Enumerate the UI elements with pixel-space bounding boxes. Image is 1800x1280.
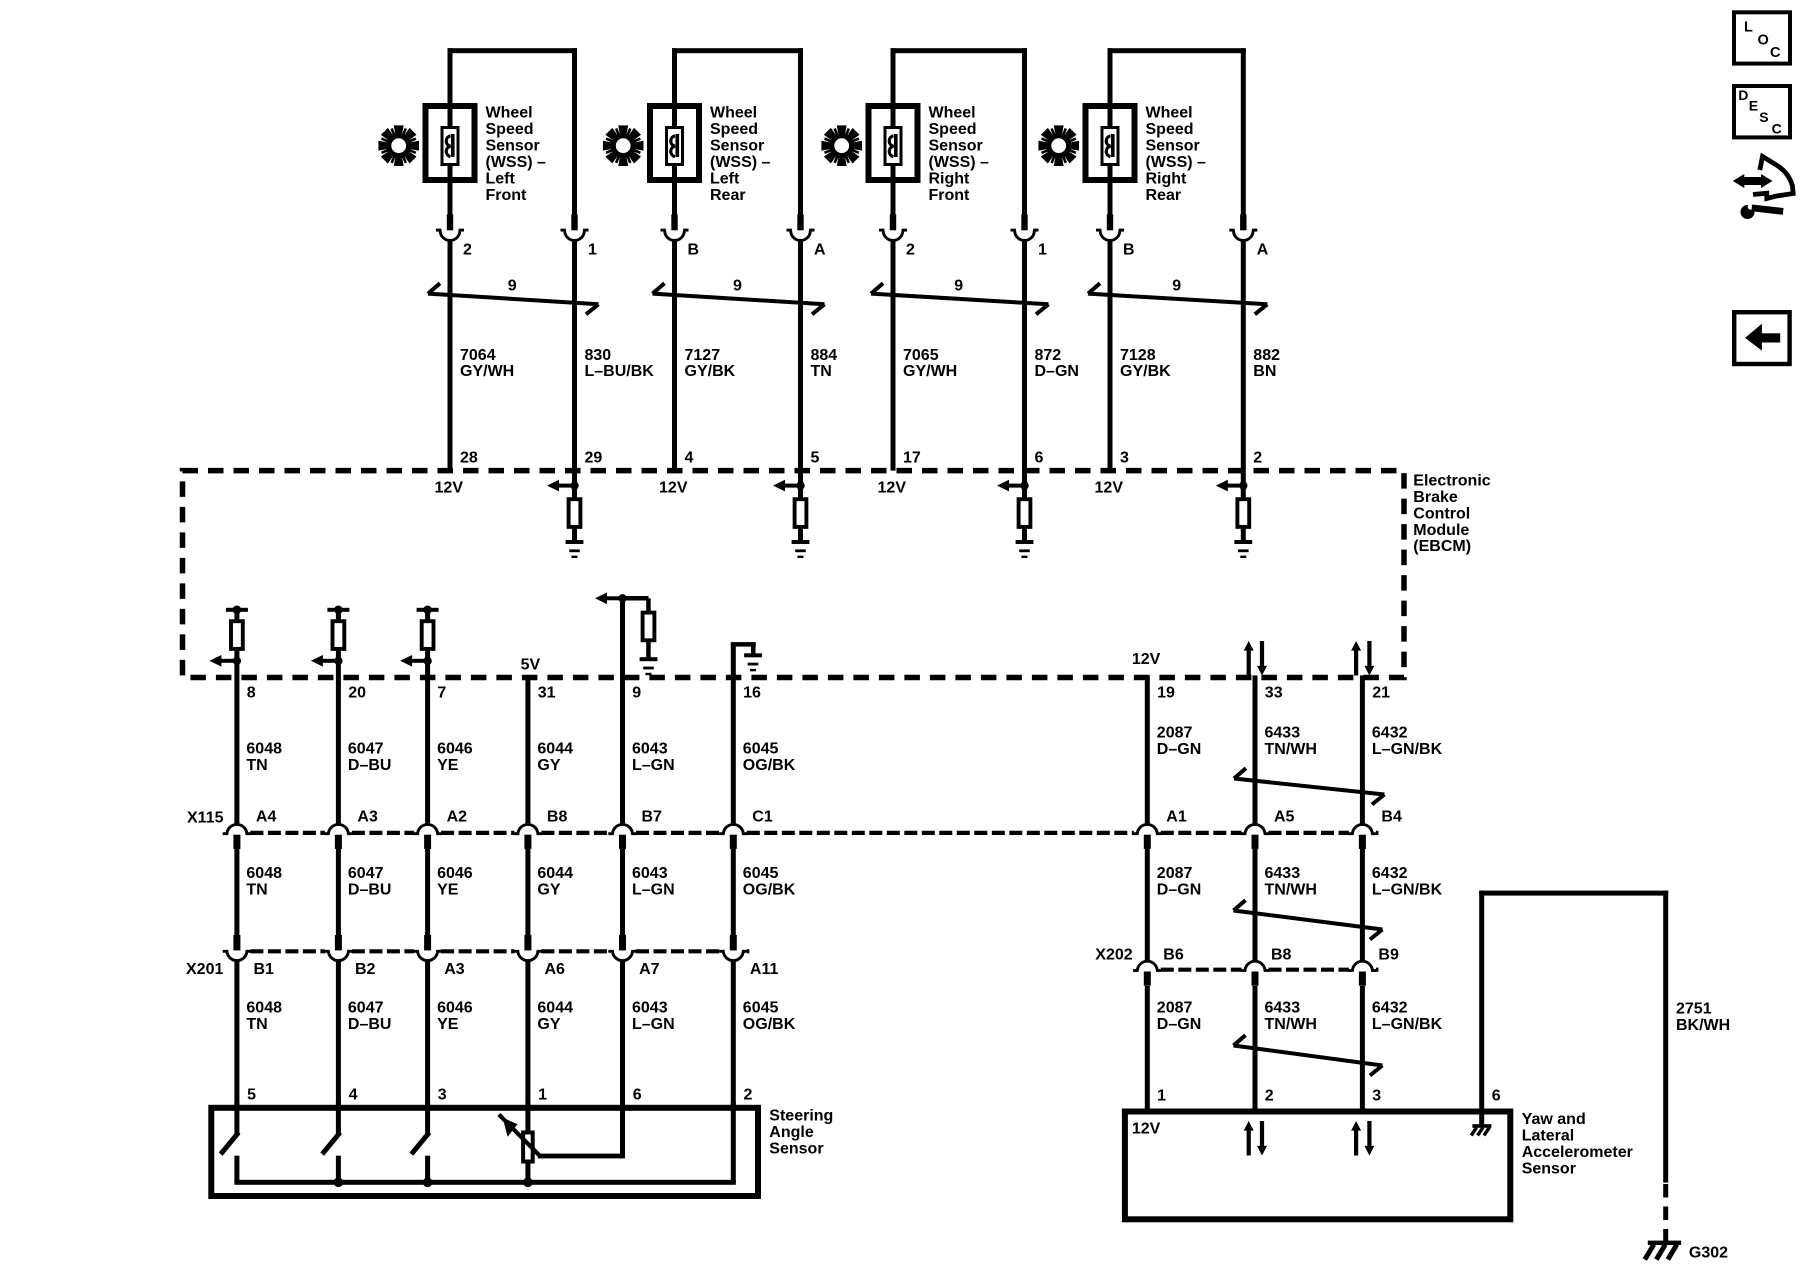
label 872 D–GN (1035, 347, 1079, 380)
svg-text:Sensor: Sensor (929, 138, 983, 155)
connector pin 2 (436, 215, 464, 241)
wire 2751 dashed to G302 (1663, 1184, 1668, 1242)
label 6044 GY (row 1) col 4 (537, 741, 573, 775)
svg-text:12V: 12V (878, 480, 907, 497)
sensor name text 4 (1146, 105, 1207, 204)
wire left 3 (891, 48, 896, 215)
twisted pair 6433/6432 (row 1) (1234, 768, 1384, 804)
chassis ground inside yaw sensor (1471, 1109, 1491, 1136)
twisted pair 6433/6432 (row 3) (1234, 1035, 1383, 1075)
svg-text:7: 7 (437, 685, 446, 702)
svg-text:OG/BK: OG/BK (743, 882, 796, 899)
Yaw and Lateral Accelerometer Sensor box (1125, 1112, 1510, 1220)
wire 884 (798, 240, 803, 470)
svg-text:(WSS) –: (WSS) – (486, 154, 547, 171)
connector X201 dashed line (250, 949, 749, 953)
svg-text:16: 16 (743, 685, 761, 702)
wire left 4 (1108, 48, 1113, 215)
wire 7127 (672, 240, 677, 470)
svg-text:GY/WH: GY/WH (903, 363, 957, 380)
wire col 8 X202 to yaw sensor (1253, 986, 1258, 1109)
wire 882 (1241, 240, 1246, 470)
switch contact col 3 (411, 1102, 430, 1182)
svg-text:33: 33 (1265, 685, 1283, 702)
svg-text:Lateral: Lateral (1522, 1128, 1574, 1145)
svg-text:7127: 7127 (685, 347, 721, 364)
EBCM pin 5 (811, 450, 820, 467)
12V net label pin 4 (659, 480, 688, 497)
svg-text:A5: A5 (1274, 809, 1295, 826)
svg-text:Sensor: Sensor (486, 138, 540, 155)
wire right 3 (1022, 48, 1027, 215)
svg-text:21: 21 (1372, 685, 1390, 702)
label 7127 GY/BK (685, 347, 736, 380)
svg-text:6044: 6044 (537, 999, 573, 1016)
svg-text:Steering: Steering (769, 1108, 833, 1125)
svg-text:6046: 6046 (437, 865, 473, 882)
svg-text:D–GN: D–GN (1035, 363, 1079, 380)
svg-text:6044: 6044 (537, 865, 573, 882)
svg-text:Front: Front (929, 187, 971, 204)
label 2087 D–GN (row 1) col 7 (1157, 725, 1201, 759)
wheel speed sensor (WSS) Left Front (378, 48, 654, 470)
svg-text:6045: 6045 (743, 865, 779, 882)
svg-text:Speed: Speed (929, 121, 977, 138)
navigation icon (1733, 157, 1793, 220)
svg-text:1: 1 (538, 1087, 547, 1104)
LOC icon (1734, 12, 1790, 63)
steering pin 5 label (247, 1087, 256, 1104)
wire right 2 (798, 48, 803, 215)
label 6045 OG/BK (row 1) col 6 (743, 741, 796, 775)
svg-text:A2: A2 (447, 809, 468, 826)
EBCM pin 33 label (1265, 685, 1283, 702)
switch contact col 1 (221, 1102, 240, 1182)
svg-text:12V: 12V (435, 480, 464, 497)
EBCM pin 3 (1120, 450, 1129, 467)
svg-text:A3: A3 (444, 961, 465, 978)
svg-text:Electronic: Electronic (1413, 472, 1490, 489)
wire pin 31 to X115 (525, 675, 530, 824)
wire col 2 X115 to next connector (336, 848, 341, 935)
wire col 4 X201 to steering angle sensor (525, 961, 530, 1105)
svg-text:(WSS) –: (WSS) – (710, 154, 771, 171)
connector X115 terminal B4 (1348, 809, 1402, 849)
svg-text:GY/BK: GY/BK (1120, 363, 1171, 380)
yaw pin 3 label (1372, 1088, 1381, 1105)
svg-text:A11: A11 (750, 961, 779, 978)
Yaw sensor name text (1522, 1111, 1633, 1177)
svg-text:9: 9 (954, 277, 963, 294)
label 6432 L–GN/BK (row 3) col 9 (1372, 999, 1443, 1033)
svg-text:C: C (1772, 120, 1782, 136)
connector X201 terminal A7 (608, 935, 659, 978)
label 884 TN (811, 347, 838, 380)
svg-text:31: 31 (538, 685, 556, 702)
label 6048 TN (row 3) col 1 (246, 999, 282, 1033)
label 6045 OG/BK (row 3) col 6 (743, 999, 796, 1033)
label 6047 D–BU (row 3) col 2 (348, 999, 392, 1033)
EBCM pin 8 label (247, 685, 256, 702)
svg-text:1: 1 (1157, 1088, 1166, 1105)
connector X202 terminal B8 (1241, 947, 1292, 986)
EBCM pin 16 label (743, 685, 761, 702)
pull-up network pin 7 (400, 606, 439, 667)
svg-text:6047: 6047 (348, 741, 384, 758)
label 882 BN (1253, 347, 1280, 380)
connector X201 terminal B1 (223, 935, 274, 978)
wire 7065 (891, 240, 896, 470)
wire col 5 X201 to steering angle sensor (620, 961, 625, 1105)
svg-text:6: 6 (633, 1087, 642, 1104)
svg-text:4: 4 (349, 1087, 358, 1104)
Steering Angle Sensor name text (769, 1108, 833, 1158)
svg-text:6048: 6048 (246, 999, 282, 1016)
twisted pair 9 sensor 3 (871, 277, 1049, 314)
svg-text:L–GN/BK: L–GN/BK (1372, 1016, 1443, 1033)
gear icon 1 (378, 125, 419, 166)
gear icon 4 (1038, 125, 1079, 166)
wheel speed sensor (WSS) Right Rear (1038, 48, 1280, 470)
5V net label pin 31 (521, 657, 541, 674)
label 6433 TN/WH (row 1) col 8 (1265, 725, 1317, 759)
svg-text:2: 2 (463, 242, 472, 259)
EBCM pin 6 (1035, 450, 1044, 467)
svg-text:B4: B4 (1381, 809, 1402, 826)
steering pin 4 label (349, 1087, 358, 1104)
svg-text:8: 8 (247, 685, 256, 702)
svg-text:A4: A4 (256, 809, 277, 826)
wire pin 8 to X115 (234, 661, 239, 824)
wire pin 20 to X115 (336, 661, 341, 824)
svg-text:BN: BN (1253, 363, 1276, 380)
svg-text:12V: 12V (1095, 480, 1124, 497)
svg-text:6432: 6432 (1372, 865, 1408, 882)
svg-text:Right: Right (929, 170, 971, 187)
svg-text:9: 9 (508, 277, 517, 294)
wire yaw pin 6 (1479, 891, 1668, 1183)
connector X115 terminal A2 (413, 809, 467, 849)
svg-text:6432: 6432 (1372, 725, 1408, 742)
svg-text:2087: 2087 (1157, 865, 1193, 882)
wire col 6 X201 to steering angle sensor (731, 961, 736, 1105)
wire pin 21 to X115 (1360, 675, 1365, 824)
EBCM pin 31 label (538, 685, 556, 702)
svg-text:Rear: Rear (710, 187, 746, 204)
connector pin 2 (879, 215, 907, 241)
connector X201 terminal A6 (514, 935, 565, 978)
label 830 L–BU/BK (585, 347, 655, 380)
svg-text:B8: B8 (547, 809, 568, 826)
wire col 9 X202 to yaw sensor (1360, 986, 1365, 1109)
gear icon 3 (821, 125, 862, 166)
svg-text:X202: X202 (1095, 947, 1132, 964)
svg-text:B: B (1123, 242, 1135, 259)
label 6047 D–BU (row 2) col 2 (348, 865, 392, 899)
connector X115 terminal A1 (1133, 809, 1187, 849)
svg-text:D–BU: D–BU (348, 882, 392, 899)
label 2087 D–GN (row 3) col 7 (1157, 999, 1201, 1033)
svg-text:D–GN: D–GN (1157, 741, 1201, 758)
wire col 2 X201 to steering angle sensor (336, 961, 341, 1105)
svg-text:A: A (814, 242, 826, 259)
svg-text:6043: 6043 (632, 999, 668, 1016)
label 6044 GY (row 2) col 4 (537, 865, 573, 899)
12V net label pin 19 (1132, 651, 1161, 668)
svg-text:Module: Module (1413, 522, 1469, 539)
wire col 3 X115 to next connector (425, 848, 430, 935)
svg-text:3: 3 (1372, 1088, 1381, 1105)
sensor box 4 (1086, 106, 1135, 180)
steering pin 6 label (633, 1087, 642, 1104)
svg-text:Front: Front (486, 187, 528, 204)
svg-text:9: 9 (733, 277, 742, 294)
switch contact col 2 (322, 1102, 341, 1182)
svg-text:6046: 6046 (437, 999, 473, 1016)
wire col 9 X115 to next connector (1360, 848, 1365, 961)
svg-text:1: 1 (1038, 242, 1047, 259)
twisted pair 9 sensor 2 (653, 277, 825, 314)
label 7065 GY/WH (903, 347, 957, 380)
svg-text:Accelerometer: Accelerometer (1522, 1144, 1633, 1161)
connector X202 dashed line (1161, 968, 1379, 972)
sensor name text 1 (486, 105, 547, 204)
svg-text:Control: Control (1413, 505, 1470, 522)
wire left 2 (672, 48, 677, 215)
label 6046 YE (row 2) col 3 (437, 865, 473, 899)
sensor name text 2 (710, 105, 771, 204)
wire pin 16 to X115 (731, 643, 736, 824)
wiper feed wire col 5 (538, 1102, 625, 1159)
bias network pin 9 (595, 593, 657, 676)
wheel speed sensor (WSS) Right Front (821, 48, 1079, 470)
wire 872 (1022, 240, 1027, 470)
svg-text:L–GN: L–GN (632, 757, 675, 774)
svg-text:6048: 6048 (246, 865, 282, 882)
back arrow icon (1734, 312, 1789, 364)
wire col 5 X115 to next connector (620, 848, 625, 935)
12V net label pin 17 (878, 480, 907, 497)
label 6433 TN/WH (row 3) col 8 (1265, 999, 1317, 1033)
ground G302 (1645, 1241, 1728, 1262)
wire 830 (572, 240, 577, 470)
svg-text:3: 3 (1120, 450, 1129, 467)
svg-text:Yaw and: Yaw and (1522, 1111, 1586, 1128)
connector X115 terminal C1 (719, 809, 773, 849)
label 6045 OG/BK (row 2) col 6 (743, 865, 796, 899)
Electronic Brake Control Module (EBCM) dashed box (183, 471, 1405, 678)
svg-text:884: 884 (811, 347, 838, 364)
svg-text:12V: 12V (1132, 651, 1161, 668)
svg-text:Speed: Speed (1146, 121, 1194, 138)
svg-text:Sensor: Sensor (1146, 138, 1200, 155)
wire col 3 X201 to steering angle sensor (425, 961, 430, 1105)
svg-text:3: 3 (438, 1087, 447, 1104)
connector X202 terminal B9 (1348, 947, 1399, 986)
svg-text:Right: Right (1146, 170, 1188, 187)
bias network pin 2 (1216, 471, 1252, 558)
label 2751 BK/WH (1676, 1001, 1730, 1034)
wheel speed sensor (WSS) Left Rear (603, 48, 837, 470)
label 7128 GY/BK (1120, 347, 1171, 380)
svg-text:GY: GY (537, 882, 560, 899)
svg-text:12V: 12V (659, 480, 688, 497)
svg-text:TN/WH: TN/WH (1265, 1016, 1317, 1033)
gear icon 2 (603, 125, 644, 166)
svg-text:20: 20 (348, 685, 366, 702)
svg-text:L–GN: L–GN (632, 882, 675, 899)
svg-text:Speed: Speed (710, 121, 758, 138)
svg-text:5: 5 (811, 450, 820, 467)
svg-text:A1: A1 (1166, 809, 1187, 826)
twisted pair 6433/6432 (row 2) (1234, 900, 1383, 939)
svg-text:D–GN: D–GN (1157, 1016, 1201, 1033)
svg-text:D–BU: D–BU (348, 757, 392, 774)
svg-text:OG/BK: OG/BK (743, 1016, 796, 1033)
label 2087 D–GN (row 2) col 7 (1157, 865, 1201, 899)
svg-text:B9: B9 (1378, 947, 1399, 964)
wire top bar sensor 4 (1108, 48, 1246, 53)
svg-text:A7: A7 (639, 961, 660, 978)
steering pin 3 label (438, 1087, 447, 1104)
wire left 1 (448, 48, 453, 215)
svg-text:D–BU: D–BU (348, 1016, 392, 1033)
svg-text:B1: B1 (254, 961, 275, 978)
svg-text:GY/WH: GY/WH (460, 363, 514, 380)
svg-text:12V: 12V (1132, 1120, 1161, 1137)
return wire col 6 (731, 1102, 736, 1183)
steering pin 1 label (538, 1087, 547, 1104)
connector X115 dashed line (250, 831, 1378, 835)
svg-text:Sensor: Sensor (1522, 1160, 1576, 1177)
bias network pin 29 (547, 471, 583, 558)
wire top bar sensor 2 (672, 48, 803, 53)
connector X115 terminal B8 (514, 809, 568, 849)
svg-text:D–GN: D–GN (1157, 882, 1201, 899)
yaw pin 6 label (1492, 1088, 1501, 1105)
ground network pin 16 (731, 642, 762, 671)
label 6432 L–GN/BK (row 1) col 9 (1372, 725, 1443, 759)
label 6048 TN (row 1) col 1 (246, 741, 282, 775)
twisted pair 9 sensor 4 (1088, 277, 1267, 314)
wire col 1 X201 to steering angle sensor (234, 961, 239, 1105)
wire col 4 X115 to next connector (525, 848, 530, 935)
svg-text:2: 2 (744, 1087, 753, 1104)
svg-text:YE: YE (437, 757, 459, 774)
svg-text:9: 9 (632, 685, 641, 702)
potentiometer (steering angle) (499, 1102, 540, 1183)
svg-text:2: 2 (1265, 1088, 1274, 1105)
svg-text:6045: 6045 (743, 999, 779, 1016)
svg-text:6044: 6044 (537, 741, 573, 758)
EBCM pin 7 label (437, 685, 446, 702)
svg-text:B7: B7 (642, 809, 663, 826)
svg-text:4: 4 (685, 450, 694, 467)
svg-text:L–GN/BK: L–GN/BK (1372, 882, 1443, 899)
svg-text:(WSS) –: (WSS) – (929, 154, 990, 171)
svg-text:6045: 6045 (743, 741, 779, 758)
twisted pair 9 sensor 1 (428, 277, 599, 314)
connector pin B (661, 215, 689, 241)
svg-text:28: 28 (460, 450, 478, 467)
yaw pin 2 label (1265, 1088, 1274, 1105)
connector X202 terminal B6 (1133, 947, 1184, 986)
svg-text:6432: 6432 (1372, 999, 1408, 1016)
svg-text:6043: 6043 (632, 741, 668, 758)
12V net label pin 28 (435, 480, 464, 497)
svg-text:D: D (1738, 87, 1748, 103)
serial data arrows yaw pin 2 (1244, 1121, 1267, 1156)
connector X201 terminal B2 (324, 935, 375, 978)
serial data arrows pin 21 (1351, 641, 1374, 676)
svg-text:TN: TN (811, 363, 832, 380)
label 6043 L–GN (row 1) col 5 (632, 741, 675, 775)
svg-text:6047: 6047 (348, 999, 384, 1016)
connector pin A (787, 215, 815, 241)
wire top bar sensor 3 (891, 48, 1028, 53)
wire right 1 (572, 48, 577, 215)
svg-text:Sensor: Sensor (710, 138, 764, 155)
svg-text:(EBCM): (EBCM) (1413, 538, 1471, 555)
EBCM name text (1413, 472, 1490, 555)
12V net label pin 3 (1095, 480, 1124, 497)
svg-text:2: 2 (906, 242, 915, 259)
svg-text:C: C (1770, 45, 1781, 61)
yaw pin 1 label (1157, 1088, 1166, 1105)
sensor box 1 (426, 106, 475, 180)
connector pin 1 (561, 215, 589, 241)
steering sensor common bus (234, 1178, 735, 1188)
label 6046 YE (row 1) col 3 (437, 741, 473, 775)
svg-text:Wheel: Wheel (929, 105, 976, 122)
svg-text:Wheel: Wheel (1146, 105, 1193, 122)
wire pin 9 to X115 (620, 598, 625, 824)
wire right 4 (1241, 48, 1246, 215)
svg-text:5V: 5V (521, 657, 541, 674)
bias network pin 5 (773, 471, 809, 558)
svg-text:6043: 6043 (632, 865, 668, 882)
EBCM pin 4 (685, 450, 694, 467)
connector pin B (1096, 215, 1124, 241)
wire col 1 X115 to next connector (234, 848, 239, 935)
wire pin 33 to X115 (1253, 675, 1258, 824)
svg-text:O: O (1758, 33, 1769, 49)
svg-text:OG/BK: OG/BK (743, 757, 796, 774)
DESC icon (1734, 86, 1790, 137)
svg-text:X115: X115 (187, 809, 224, 826)
label 6046 YE (row 3) col 3 (437, 999, 473, 1033)
connector X201 terminal A3 (413, 935, 464, 978)
svg-text:Angle: Angle (769, 1124, 814, 1141)
pull-up network pin 20 (311, 606, 350, 667)
svg-text:B8: B8 (1271, 947, 1292, 964)
svg-text:6433: 6433 (1265, 865, 1301, 882)
svg-text:Left: Left (486, 170, 516, 187)
label 6433 TN/WH (row 2) col 8 (1265, 865, 1317, 899)
svg-text:(WSS) –: (WSS) – (1146, 154, 1207, 171)
svg-text:GY: GY (537, 1016, 560, 1033)
label 6044 GY (row 3) col 4 (537, 999, 573, 1033)
bias network pin 6 (997, 471, 1033, 558)
sensor name text 3 (929, 105, 990, 204)
connector X115 label (187, 809, 224, 826)
svg-text:C1: C1 (752, 809, 773, 826)
svg-text:TN/WH: TN/WH (1265, 882, 1317, 899)
svg-text:X201: X201 (186, 961, 223, 978)
wire 7064 (448, 240, 453, 470)
wire pin 7 to X115 (425, 661, 430, 824)
svg-text:830: 830 (585, 347, 612, 364)
